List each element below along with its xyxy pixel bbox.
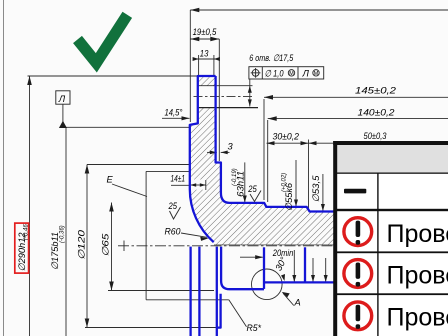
lower flange face with R5 fillet — [221, 247, 334, 290]
∅17.5 vertical dimension line — [249, 79, 251, 107]
leader lower mid — [312, 258, 314, 282]
∅120 bottom extension — [85, 327, 219, 329]
hole top edge line — [198, 85, 253, 87]
extension line right of rim — [218, 39, 220, 161]
hatch main web region — [190, 108, 335, 245]
leader 63h11 — [244, 162, 246, 202]
lower step segment — [217, 294, 221, 328]
dim line 3 right part — [221, 151, 230, 153]
svg-text:∅120: ∅120 — [77, 229, 87, 260]
section boundary at axis — [214, 244, 335, 246]
detail E box left edge — [145, 171, 147, 299]
lower slot left wall — [263, 247, 265, 289]
arrow ∅65 bottom — [109, 282, 114, 291]
∅120 top extension — [87, 164, 190, 166]
roughness symbol 1 — [170, 207, 181, 219]
leader A — [283, 293, 294, 305]
svg-text:Прове: Прове — [387, 304, 448, 332]
row line 3 — [337, 251, 448, 253]
red highlight box — [15, 223, 29, 273]
lower rim face line 1 — [189, 247, 191, 336]
datum box — [56, 91, 70, 104]
top dimension line to right edge — [190, 9, 448, 11]
datum triangle — [59, 121, 67, 128]
rim left profile and R60 — [190, 76, 216, 242]
dash symbol — [344, 189, 366, 194]
table — [333, 141, 448, 336]
svg-text:(-0,36): (-0,36) — [60, 225, 66, 243]
rim top surface extension to ∅290 line — [28, 75, 198, 77]
svg-text:13: 13 — [200, 48, 209, 58]
arrows 19±0.5 — [190, 37, 199, 42]
svg-text:А: А — [294, 298, 301, 308]
arrows 14±1 — [190, 183, 196, 187]
extension 30 right — [308, 140, 310, 210]
detail E box top edge — [146, 170, 190, 172]
svg-text:14,5°: 14,5° — [165, 107, 183, 117]
extension 140 — [267, 120, 269, 202]
lower slot right wall — [304, 247, 306, 282]
leader ∅53.5 lower — [325, 258, 327, 282]
leader R60 — [181, 233, 207, 237]
leader E — [112, 184, 147, 197]
arrow ∅65 top — [109, 203, 114, 212]
svg-text:Е: Е — [107, 175, 114, 185]
dimension texts — [17, 27, 397, 333]
arrow 145 — [264, 95, 273, 100]
svg-text:(-0,19): (-0,19) — [232, 168, 238, 186]
leader R5 — [229, 300, 247, 327]
svg-text:25: 25 — [168, 201, 178, 211]
arrow R60 — [200, 237, 208, 241]
dim line 3 left part — [207, 151, 217, 153]
feature control frame — [249, 67, 324, 79]
rim right profile to hub surface — [216, 76, 335, 212]
svg-text:Прове: Прове — [387, 220, 448, 248]
svg-text:140±0,2: 140±0,2 — [358, 108, 396, 118]
warning icon 1 — [344, 218, 372, 246]
blue part outline — [190, 76, 335, 336]
svg-text:25: 25 — [247, 184, 257, 194]
∅175 dimension line — [65, 127, 67, 336]
∅120 dimension line — [86, 165, 88, 328]
table body white — [337, 173, 448, 336]
hatch rim top band — [198, 77, 216, 86]
table left border — [333, 141, 337, 336]
dim line 50±0.3 — [309, 142, 336, 144]
drawing frame line left — [3, 0, 5, 336]
extension lines 13 — [198, 55, 200, 76]
svg-text:Л: Л — [58, 94, 66, 104]
green checkmark — [78, 15, 128, 63]
svg-text:14±1: 14±1 — [171, 173, 186, 183]
table top border — [333, 141, 448, 145]
arrow 14.5deg — [182, 116, 190, 120]
arrow 140 — [268, 116, 277, 121]
leader 14±1 — [171, 184, 190, 186]
roughness symbol 2 — [250, 191, 261, 202]
arrow ∅120 top — [85, 165, 90, 174]
svg-text:Л: Л — [302, 68, 310, 78]
svg-text:145±0,2: 145±0,2 — [355, 85, 397, 95]
svg-text:19±0,5: 19±0,5 — [193, 27, 217, 37]
arrow ∅120 bottom — [85, 319, 90, 328]
dim line 20min — [240, 256, 263, 258]
svg-text:M: M — [289, 71, 294, 77]
svg-text:30±0,2: 30±0,2 — [273, 131, 300, 141]
arrows 30±0.2 — [267, 141, 275, 145]
leader ∅55 lower — [293, 250, 295, 282]
dim line 14.5 degree — [162, 117, 190, 119]
warning icon 3 — [344, 302, 372, 330]
table header grey band — [333, 141, 448, 173]
row line 2 — [337, 209, 448, 211]
arrow ∅55 lower — [292, 275, 296, 282]
warning icon 2 — [344, 260, 372, 288]
svg-text:∅175b11: ∅175b11 — [50, 232, 60, 270]
leader ∅53.5 upper — [322, 174, 324, 211]
extension 145 — [263, 99, 265, 200]
dim line 19±0.5 — [190, 38, 219, 40]
svg-text:∅65: ∅65 — [101, 233, 111, 257]
arrow ∅290 up — [27, 76, 32, 85]
centerline bolt hole axis — [194, 95, 253, 97]
surface extension y=127 to datum — [63, 126, 190, 128]
datum stem — [62, 104, 64, 122]
arrow 20min right — [255, 255, 263, 259]
detail E box bottom edge — [146, 299, 229, 301]
svg-text:3: 3 — [228, 141, 234, 151]
svg-text:20min: 20min — [272, 248, 293, 258]
arrow 63h11 down — [243, 196, 247, 203]
leader ∅55k6 upper — [295, 160, 297, 207]
svg-text:M: M — [314, 71, 319, 77]
arrow ∅55k6 down — [294, 200, 298, 207]
centerline main axis — [118, 245, 334, 247]
arrows 3 — [210, 151, 217, 155]
dim line 13 — [193, 58, 219, 60]
svg-text:6 отв. ∅17,5: 6 отв. ∅17,5 — [249, 53, 294, 63]
svg-text:Прове: Прове — [387, 262, 448, 290]
arrow top dim left — [190, 8, 199, 13]
svg-text:50±0,3: 50±0,3 — [364, 131, 388, 141]
arrow ∅53.5 down — [321, 204, 325, 211]
hole bottom edge line — [198, 107, 258, 109]
extension line rim left step — [189, 10, 191, 122]
white pocket for 14±1 dimension — [191, 180, 207, 190]
arrows 13 outside — [193, 57, 199, 61]
arrows ∅17.5 — [248, 86, 252, 93]
svg-text:R5*: R5* — [247, 323, 262, 333]
arrow 30deg — [281, 274, 285, 281]
svg-text:∅ 1,0: ∅ 1,0 — [265, 68, 285, 78]
dim line 14±1 inside pocket — [191, 184, 206, 186]
∅65 bottom extension — [108, 290, 214, 292]
∅290 dimension line — [29, 76, 31, 336]
svg-text:R60: R60 — [165, 226, 182, 236]
dim line 145±0.2 — [264, 96, 448, 98]
lower rim face line 2 — [198, 247, 200, 336]
detail circle A — [251, 269, 282, 300]
row line 1 — [337, 173, 448, 174]
lower flange face line 3 — [216, 247, 218, 336]
∅65 dimension line — [111, 203, 113, 291]
center mark cross — [123, 241, 125, 252]
svg-text:∅53,5: ∅53,5 — [311, 175, 321, 203]
svg-text:(+0,02): (+0,02) — [282, 173, 288, 192]
arrow leader A — [282, 292, 290, 298]
row line 4 — [337, 293, 448, 295]
column divider — [377, 173, 378, 336]
dim line 30±0.2 — [267, 142, 309, 144]
dim line 140±0.2 — [268, 118, 448, 120]
